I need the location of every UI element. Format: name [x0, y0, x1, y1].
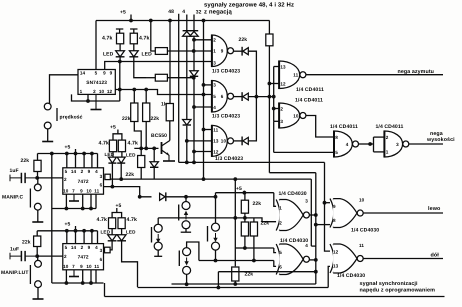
wire x52 down to bottom — [51, 209, 53, 284]
wire rail to U1 pin5 — [95, 21, 97, 70]
wire D8 to AND node — [248, 51, 256, 96]
node riser-diode wire — [214, 195, 218, 199]
resistor 22k R10 — [34, 160, 41, 171]
wire R1 to D1 — [119, 44, 121, 51]
resistor 4.7k R1 — [117, 33, 124, 44]
node X3 in9 tee — [323, 201, 327, 205]
diode D4 on 4Hz bus — [183, 120, 191, 126]
wire GD input tie bar — [373, 137, 375, 152]
op gate GC 1/4 CD4011 — [334, 131, 359, 158]
wire to ground — [47, 129, 49, 141]
wire G2 out to diode — [234, 96, 243, 98]
wire to G2 input3 — [204, 84, 212, 86]
wire U2 bottom pin x91 — [90, 194, 92, 208]
wire bus x203 — [203, 21, 205, 180]
wire to GB input2 — [274, 108, 279, 110]
wire manip2 switch lever — [29, 265, 31, 284]
node R16 h284 — [233, 282, 237, 286]
node bus203-G2in3 — [202, 83, 206, 87]
svg-text:14: 14 — [71, 169, 77, 174]
svg-text:6: 6 — [100, 183, 103, 188]
wire 1k to collector — [169, 121, 171, 141]
node 48 on rail — [168, 19, 172, 23]
wire P2 lever — [151, 227, 153, 243]
op IC U2 7472 upper — [63, 168, 104, 194]
wire under U2 — [52, 208, 96, 210]
wire P3 riser — [215, 193, 217, 223]
diode D8 G1 output — [242, 47, 248, 56]
resistor 22k R8 — [138, 156, 145, 168]
wire U3 bottom pin x82.7 — [82, 270, 84, 283]
wire R18 to D14 — [111, 229, 113, 235]
wire x235 long — [234, 179, 236, 266]
wire P3 bottom down — [215, 250, 217, 260]
arrow P4 — [184, 258, 188, 266]
node P1 top — [184, 195, 188, 199]
wire +5 rail2 — [38, 153, 98, 155]
wire R16 to h284 — [234, 281, 236, 284]
pushbutton P2 top contact — [154, 224, 162, 232]
svg-text:5: 5 — [279, 250, 282, 255]
svg-text:dół: dół — [431, 253, 440, 259]
node x273-AND — [272, 95, 276, 99]
wire GA output nega azymutu — [306, 74, 443, 76]
svg-text:LED: LED — [142, 52, 153, 58]
wire h172 distribution — [269, 172, 315, 174]
wire junction2 to IC3 pin2 — [37, 255, 63, 257]
svg-text:2: 2 — [64, 177, 67, 182]
svg-text:10: 10 — [359, 198, 365, 203]
svg-text:5: 5 — [95, 71, 98, 76]
wire P2 end bar — [154, 255, 162, 257]
node bus203 rail — [202, 19, 206, 23]
terminal predkosc top — [44, 103, 51, 110]
wire to R6 — [133, 90, 135, 104]
resistor 22k R6 — [131, 103, 138, 122]
wire x273 to GC5 — [273, 121, 275, 152]
svg-text:10: 10 — [63, 189, 69, 194]
wire 4Hz bus upper — [186, 15, 188, 31]
wire D2 to R4 — [134, 57, 146, 78]
svg-text:22k: 22k — [22, 240, 31, 246]
wire to G3 input13 — [187, 140, 212, 142]
svg-text:2: 2 — [280, 106, 283, 111]
node under U2 c — [89, 207, 93, 211]
wire R6 to base rail — [134, 122, 141, 149]
wire U3 pin11 down — [95, 270, 97, 283]
wire GD output nega wysokosci — [409, 143, 443, 145]
diode D10 G3 output — [242, 137, 248, 146]
svg-text:7472: 7472 — [78, 179, 89, 185]
svg-text:6: 6 — [221, 94, 224, 99]
wire x316 long — [315, 173, 317, 284]
wire D7 down — [153, 167, 155, 179]
transistor Q1 BC550 — [162, 141, 170, 156]
wire R7 to base rail — [145, 122, 147, 149]
wire +5 top rail — [96, 20, 270, 22]
node h271 x316 — [314, 270, 318, 274]
svg-text:7: 7 — [72, 264, 75, 269]
wire long to GC input5 — [274, 151, 334, 153]
wire +5 to split2 — [116, 208, 118, 213]
wire to X3 in8 — [316, 224, 330, 226]
wire long x52 down — [51, 154, 53, 209]
svg-text:3: 3 — [305, 199, 308, 204]
resistor R3 horizontal — [155, 48, 167, 55]
wire +5 tick — [130, 15, 132, 21]
node wired-AND b — [268, 95, 272, 99]
wire D2 to R4 lead — [146, 77, 155, 79]
svg-text:4.7k: 4.7k — [127, 217, 138, 223]
wire junction to IC2 pin2 — [37, 177, 63, 179]
svg-text:1/4 CD4011: 1/4 CD4011 — [296, 87, 324, 93]
svg-text:9: 9 — [80, 264, 83, 269]
wire D10 to AND node — [248, 97, 256, 141]
node under U2 b — [81, 207, 85, 211]
node R3 rail — [149, 19, 153, 23]
ground U1 pin10 — [91, 94, 102, 109]
svg-text:22k: 22k — [151, 116, 160, 122]
node x203 on h179 — [202, 177, 206, 181]
wire R11 to D11 — [112, 152, 114, 157]
wire h218 to R14 — [244, 218, 246, 222]
wire D9 to AND node — [248, 96, 273, 98]
svg-text:11: 11 — [94, 189, 99, 194]
arrow P1 — [184, 211, 188, 220]
node D11 on pin6 wire — [111, 185, 115, 189]
wire D12 down to h179 — [120, 163, 122, 179]
wire D11 down to pin6 wire — [111, 163, 113, 186]
wire rail3 right corner to IC3 — [97, 231, 99, 244]
svg-text:1/4 CD4011: 1/4 CD4011 — [295, 98, 323, 104]
node base junction1 — [139, 147, 143, 151]
wire bottom rail B — [105, 296, 445, 298]
wire R10 to junction — [37, 172, 39, 178]
svg-text:+5: +5 — [120, 10, 126, 16]
svg-text:13: 13 — [280, 64, 286, 69]
svg-text:1/4 CD4011: 1/4 CD4011 — [376, 124, 404, 130]
svg-text:1: 1 — [386, 150, 389, 155]
wire R19 to D15 — [121, 229, 123, 235]
wire to gate G1 input3 — [120, 61, 212, 63]
node GC-GD — [368, 142, 372, 146]
svg-text:1: 1 — [213, 49, 216, 54]
wire railB left riser — [104, 283, 106, 297]
wire R15 down — [253, 236, 255, 261]
pushbutton P3 bottom contact — [212, 242, 220, 250]
LED D15 — [117, 235, 126, 241]
wire h248 to XOR2 in5 jog — [274, 248, 276, 253]
wire under U3 — [52, 282, 104, 284]
svg-text:10: 10 — [63, 264, 69, 269]
svg-text:LED: LED — [126, 153, 136, 158]
svg-text:4.7k: 4.7k — [139, 36, 150, 42]
node +5 rail — [129, 19, 133, 23]
diode D7 — [150, 162, 158, 168]
ground U3 pin7 — [69, 270, 79, 277]
node R9-GAin12 — [268, 82, 272, 86]
gate X1 body — [276, 199, 309, 231]
node x235 on h179 — [233, 177, 237, 181]
node rail2 a — [65, 152, 69, 156]
svg-text:5: 5 — [65, 169, 68, 174]
node rail2 b — [74, 152, 78, 156]
node R14 h248 — [243, 246, 247, 250]
svg-text:2: 2 — [279, 220, 282, 225]
op gate GD 1/4 CD4011 — [384, 131, 408, 158]
svg-text:2: 2 — [386, 135, 389, 140]
wire D15 to railA — [122, 241, 138, 287]
svg-text:11: 11 — [94, 264, 99, 269]
svg-text:3: 3 — [280, 119, 283, 124]
wire x218 drop to railA — [217, 272, 219, 288]
diode D5 on 32Hz bus — [190, 31, 198, 37]
terminal manip1 top — [34, 184, 41, 191]
LED D1 — [116, 51, 125, 57]
svg-text:napędu z oprogramowaniem: napędu z oprogramowaniem — [360, 287, 436, 293]
node LED1 junction — [118, 60, 122, 64]
resistor 4.7k R18 — [109, 218, 116, 229]
svg-text:7: 7 — [72, 189, 75, 194]
svg-text:22k: 22k — [239, 37, 248, 43]
wire rail3 to 22k R17 — [36, 231, 38, 236]
node 32bus-G2in4 — [192, 105, 196, 109]
resistor 22k R7 — [143, 103, 150, 122]
svg-text:2: 2 — [64, 254, 67, 259]
svg-text:3: 3 — [100, 174, 103, 179]
power tap R2 — [130, 29, 137, 33]
wire 48Hz bus to 1k — [169, 21, 171, 104]
svg-text:SN74123: SN74123 — [86, 80, 107, 86]
svg-text:10: 10 — [86, 189, 92, 194]
svg-text:+5: +5 — [236, 186, 242, 192]
node rail3 a — [65, 229, 69, 233]
svg-text:4.7k: 4.7k — [128, 141, 139, 147]
terminal manip2 top — [35, 260, 42, 267]
ground manip1 — [32, 221, 43, 222]
svg-text:9: 9 — [88, 245, 91, 250]
node 22k R13 bottom — [243, 216, 247, 220]
wire R2 to D2 — [133, 44, 135, 51]
wire R13 down — [244, 213, 246, 218]
svg-text:12: 12 — [213, 149, 219, 154]
svg-text:22k: 22k — [253, 201, 262, 207]
node D7 base rail — [152, 147, 156, 151]
wire U1 pin12 to G2 input5 stepped — [115, 90, 212, 95]
svg-text:10: 10 — [221, 139, 227, 144]
node under U2 a — [65, 207, 69, 211]
wire X1 out — [309, 214, 315, 216]
node under U3 b — [81, 281, 85, 285]
wire R3 to gate G1 input1 — [167, 50, 212, 52]
svg-text:22k: 22k — [21, 158, 30, 164]
svg-text:11: 11 — [293, 73, 298, 78]
node rail2 d — [90, 152, 94, 156]
node LED1 line crossing — [118, 88, 122, 92]
node R3-32bus — [192, 49, 196, 53]
svg-text:LED: LED — [126, 230, 136, 235]
svg-text:+5: +5 — [65, 145, 71, 151]
svg-text:MANIP.LUT: MANIP.LUT — [1, 270, 28, 276]
svg-text:1/3 CD4023: 1/3 CD4023 — [212, 114, 240, 120]
wire rail2 to IC2 pin x91.9 — [91, 154, 93, 168]
node X1 out x316 — [314, 213, 318, 217]
svg-text:22k: 22k — [122, 116, 131, 122]
resistor 4.7k R19 — [118, 218, 125, 229]
wire U2 pin11 down — [95, 194, 97, 208]
wire D14 to square — [110, 241, 112, 250]
wire x311 — [310, 179, 312, 246]
wire +5 rail3 — [37, 230, 97, 232]
node +5 on h192 — [243, 191, 247, 195]
wire U2 pin6 to diode — [104, 187, 152, 197]
wire h218 to R15 — [253, 218, 255, 222]
svg-text:z negacją: z negacją — [204, 9, 232, 16]
wire +5 tick3 — [243, 191, 245, 193]
wire X2 out — [309, 259, 315, 261]
svg-text:11: 11 — [213, 127, 218, 132]
op gate G3 1/3 CD4023 — [212, 125, 234, 157]
wire P1 bottom stub — [185, 229, 187, 232]
wire to G1 input2 — [194, 39, 212, 41]
node X3 in8 tee — [314, 223, 318, 227]
svg-text:5: 5 — [65, 245, 68, 250]
wire h192 to XOR1 in1 — [216, 192, 274, 194]
node 4bus-G3in13 — [185, 139, 189, 143]
node R15 h260 — [252, 259, 256, 263]
svg-text:8: 8 — [335, 135, 338, 140]
op gate G2 1/3 CD4023 — [212, 80, 234, 113]
svg-text:12: 12 — [280, 81, 286, 86]
svg-text:4: 4 — [346, 142, 349, 147]
wire box bottom rung — [311, 245, 316, 247]
wire h162 distribution — [179, 161, 325, 163]
wire R17 to junction2 — [36, 247, 38, 257]
wire to D7 — [153, 148, 155, 161]
svg-text:13: 13 — [213, 139, 219, 144]
wire to GB input3 — [274, 120, 279, 122]
wire U3 bottom pin x66.4 — [65, 270, 67, 283]
svg-text:2: 2 — [213, 38, 216, 43]
wire switch lever predkosc — [56, 108, 58, 121]
op gate GB 1/4 CD4011 — [279, 103, 306, 129]
resistor 1k R5 — [166, 104, 173, 121]
ground predkosc — [42, 141, 53, 142]
wire P4 top loop — [187, 242, 199, 261]
svg-text:9: 9 — [88, 169, 91, 174]
node P4 on h284 — [185, 282, 189, 286]
svg-text:nega: nega — [430, 131, 443, 137]
wire +5 to R13 — [244, 193, 246, 201]
svg-text:1uF: 1uF — [10, 168, 19, 174]
ground U2 pin7 — [69, 194, 79, 201]
gate X4 body — [330, 243, 364, 273]
wire bus 48Hz x178 — [178, 14, 180, 163]
svg-text:2: 2 — [81, 169, 84, 174]
wire R9 down — [268, 46, 270, 173]
svg-text:4: 4 — [95, 169, 98, 174]
wire manip1 to ground — [37, 210, 39, 222]
op IC U1 SN74123 top-left — [78, 70, 115, 95]
wire rail2 to IC2 pin x75.5 — [75, 154, 77, 168]
svg-text:+5: +5 — [65, 222, 71, 228]
wire manip1 switch lever — [29, 189, 31, 208]
svg-text:22k: 22k — [261, 221, 270, 227]
gate X3 body — [330, 198, 365, 228]
svg-text:3: 3 — [213, 60, 216, 65]
wire to G2 input4 — [194, 106, 212, 108]
diode D9 G2 output — [242, 92, 248, 101]
svg-text:nega azymutu: nega azymutu — [398, 69, 435, 75]
LED D12 — [117, 157, 125, 163]
svg-text:3: 3 — [396, 142, 399, 147]
pushbutton P4 bottom contact — [183, 266, 191, 274]
ground manip2 — [33, 298, 44, 299]
ground Q1 emitter — [163, 155, 175, 161]
node manip1 junction — [35, 176, 39, 180]
node x273-GBin2 — [272, 107, 276, 111]
svg-text:11: 11 — [359, 243, 364, 248]
wire P2 top up — [157, 218, 159, 224]
node base junction2 — [144, 147, 148, 151]
node rail3 d — [90, 229, 94, 233]
wire rail2 to 22k R10 — [37, 154, 39, 161]
pushbutton P2 bottom contact — [154, 242, 162, 250]
svg-text:1: 1 — [279, 206, 282, 211]
svg-text:9: 9 — [110, 71, 113, 76]
wire to tie bar — [370, 143, 373, 145]
svg-text:1/4 CD4030: 1/4 CD4030 — [337, 273, 365, 279]
wire h271 — [218, 271, 315, 273]
LED D14 — [108, 235, 117, 241]
terminal predkosc bottom — [44, 122, 51, 129]
wire U2 bottom pin x66.4 — [65, 194, 67, 208]
wire R4 to 32 bus — [167, 77, 193, 79]
node rail3 c — [82, 229, 86, 233]
node under U3 c — [89, 281, 93, 285]
svg-text:12: 12 — [107, 89, 113, 94]
svg-text:1: 1 — [80, 89, 83, 94]
svg-text:14: 14 — [71, 245, 77, 250]
svg-text:3: 3 — [100, 248, 103, 253]
wire +5 tick2 — [75, 149, 77, 154]
wire P1 end bar — [181, 231, 191, 233]
node bus203-G3in11 — [202, 128, 206, 132]
op IC U3 7472 lower — [63, 244, 104, 270]
arrow P3 — [213, 233, 217, 242]
resistor 22k R16 — [232, 267, 239, 281]
svg-text:10: 10 — [293, 113, 299, 118]
svg-text:10: 10 — [99, 89, 105, 94]
resistor R4 horizontal — [155, 74, 167, 81]
resistor 22k R15 — [250, 222, 257, 236]
wire P1 lever — [178, 205, 180, 221]
svg-text:1/3 CD4023: 1/3 CD4023 — [212, 69, 240, 75]
svg-text:9: 9 — [333, 204, 336, 209]
node rail2 c — [82, 152, 86, 156]
wire rail3 to IC3 pin x84.1 — [83, 231, 85, 244]
wire split2 to R18 R19 — [112, 213, 122, 218]
wire h179 distribution — [110, 178, 311, 180]
wire U1 pin2 stub — [87, 94, 89, 101]
svg-text:1uF: 1uF — [10, 247, 19, 253]
terminal manip2 bottom — [35, 281, 42, 288]
wire rail to R9 — [268, 21, 270, 35]
wire P3 lever — [207, 226, 209, 242]
svg-text:LED: LED — [103, 52, 114, 58]
wire rail3 to IC3 pin x91.9 — [91, 231, 93, 244]
svg-text:1/4 CD4030: 1/4 CD4030 — [351, 228, 379, 234]
